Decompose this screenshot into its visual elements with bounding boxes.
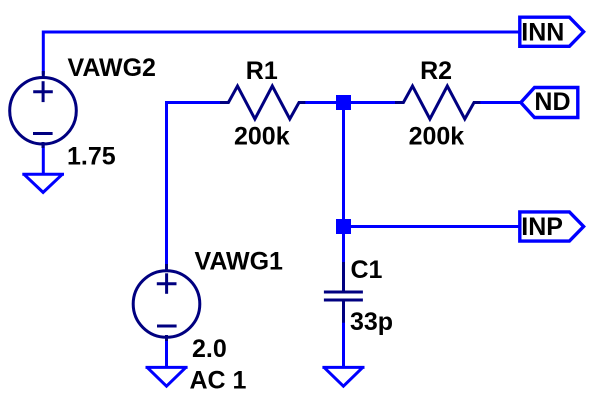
svg-text:200k: 200k xyxy=(409,122,465,150)
svg-text:INN: INN xyxy=(521,18,564,46)
svg-text:200k: 200k xyxy=(234,122,290,150)
svg-text:INP: INP xyxy=(521,213,563,241)
svg-text:R2: R2 xyxy=(420,57,452,85)
svg-text:VAWG1: VAWG1 xyxy=(195,248,284,276)
svg-text:C1: C1 xyxy=(351,256,383,284)
svg-text:ND: ND xyxy=(534,88,570,116)
svg-text:1.75: 1.75 xyxy=(67,143,116,171)
svg-text:2.0: 2.0 xyxy=(192,335,227,363)
svg-text:33p: 33p xyxy=(350,308,393,336)
svg-text:R1: R1 xyxy=(246,57,278,85)
svg-text:VAWG2: VAWG2 xyxy=(68,54,156,82)
svg-text:AC 1: AC 1 xyxy=(190,366,247,394)
